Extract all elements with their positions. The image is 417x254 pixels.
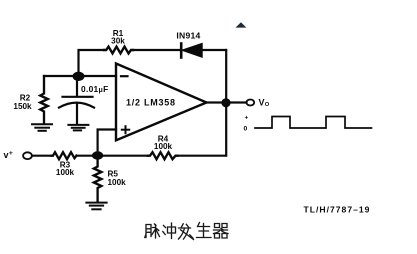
node junction inverting input <box>73 72 85 81</box>
resistor R2 <box>40 76 48 123</box>
op-amp minus sign <box>121 75 128 77</box>
waveform square wave <box>255 117 372 129</box>
marker triangle artifact <box>236 22 247 27</box>
wire V+ to R3 <box>32 155 52 157</box>
svg-text:v+: v+ <box>4 150 13 160</box>
resistor R3 <box>52 152 77 159</box>
ground under R2 <box>32 124 52 131</box>
wire top feedback left segment <box>79 50 105 76</box>
svg-text:1/2 LM358: 1/2 LM358 <box>126 98 176 108</box>
ground under C1 <box>68 125 88 130</box>
char 生 <box>197 223 212 238</box>
wire R1 to diode <box>133 49 180 51</box>
svg-text:100k: 100k <box>108 178 127 187</box>
terminal V+ <box>23 152 32 159</box>
node junction bottom <box>92 151 103 159</box>
svg-text:30k: 30k <box>111 37 125 46</box>
title 脉冲发生器 (pulse generator) drawn as strokes <box>145 223 228 240</box>
wire op-amp output <box>207 101 247 103</box>
wire inverting input <box>44 75 116 77</box>
resistor R4 <box>148 152 178 159</box>
svg-text:150k: 150k <box>13 102 32 111</box>
char 冲 <box>163 223 176 239</box>
svg-text:100k: 100k <box>56 168 75 177</box>
op-amp plus sign <box>122 126 129 133</box>
ground under R5 <box>86 203 106 210</box>
capacitor C1 top plate <box>63 96 93 98</box>
capacitor C1 curved plate <box>59 103 94 108</box>
svg-text:+: + <box>245 115 249 122</box>
svg-text:0.01μF: 0.01μF <box>81 84 109 94</box>
terminal Vo <box>246 100 254 106</box>
svg-text:VO: VO <box>259 98 270 108</box>
op-amp U1 1/2 LM358 <box>116 64 207 141</box>
resistor R1 <box>104 47 133 54</box>
capacitor C1 lead top <box>76 80 78 97</box>
resistor R5 <box>94 160 102 202</box>
svg-text:100k: 100k <box>154 142 173 151</box>
svg-text:IN914: IN914 <box>176 31 200 41</box>
wire right vertical feedback <box>225 50 227 156</box>
wire noninverting input <box>98 130 116 156</box>
wire R3 to node <box>77 155 149 157</box>
wire diode to right vertical <box>202 49 226 51</box>
node output junction <box>221 98 230 107</box>
diode D1 IN914 body <box>183 44 203 57</box>
wire R4 to right vertical <box>178 155 227 157</box>
char 脉 <box>145 224 160 238</box>
svg-text:TL/H/7787–19: TL/H/7787–19 <box>304 204 371 214</box>
capacitor C1 lead bottom <box>76 104 78 124</box>
diode D1 IN914 cathode bar <box>180 44 183 58</box>
svg-text:0: 0 <box>244 126 248 133</box>
char 发 <box>179 224 194 240</box>
char 器 <box>214 224 229 239</box>
